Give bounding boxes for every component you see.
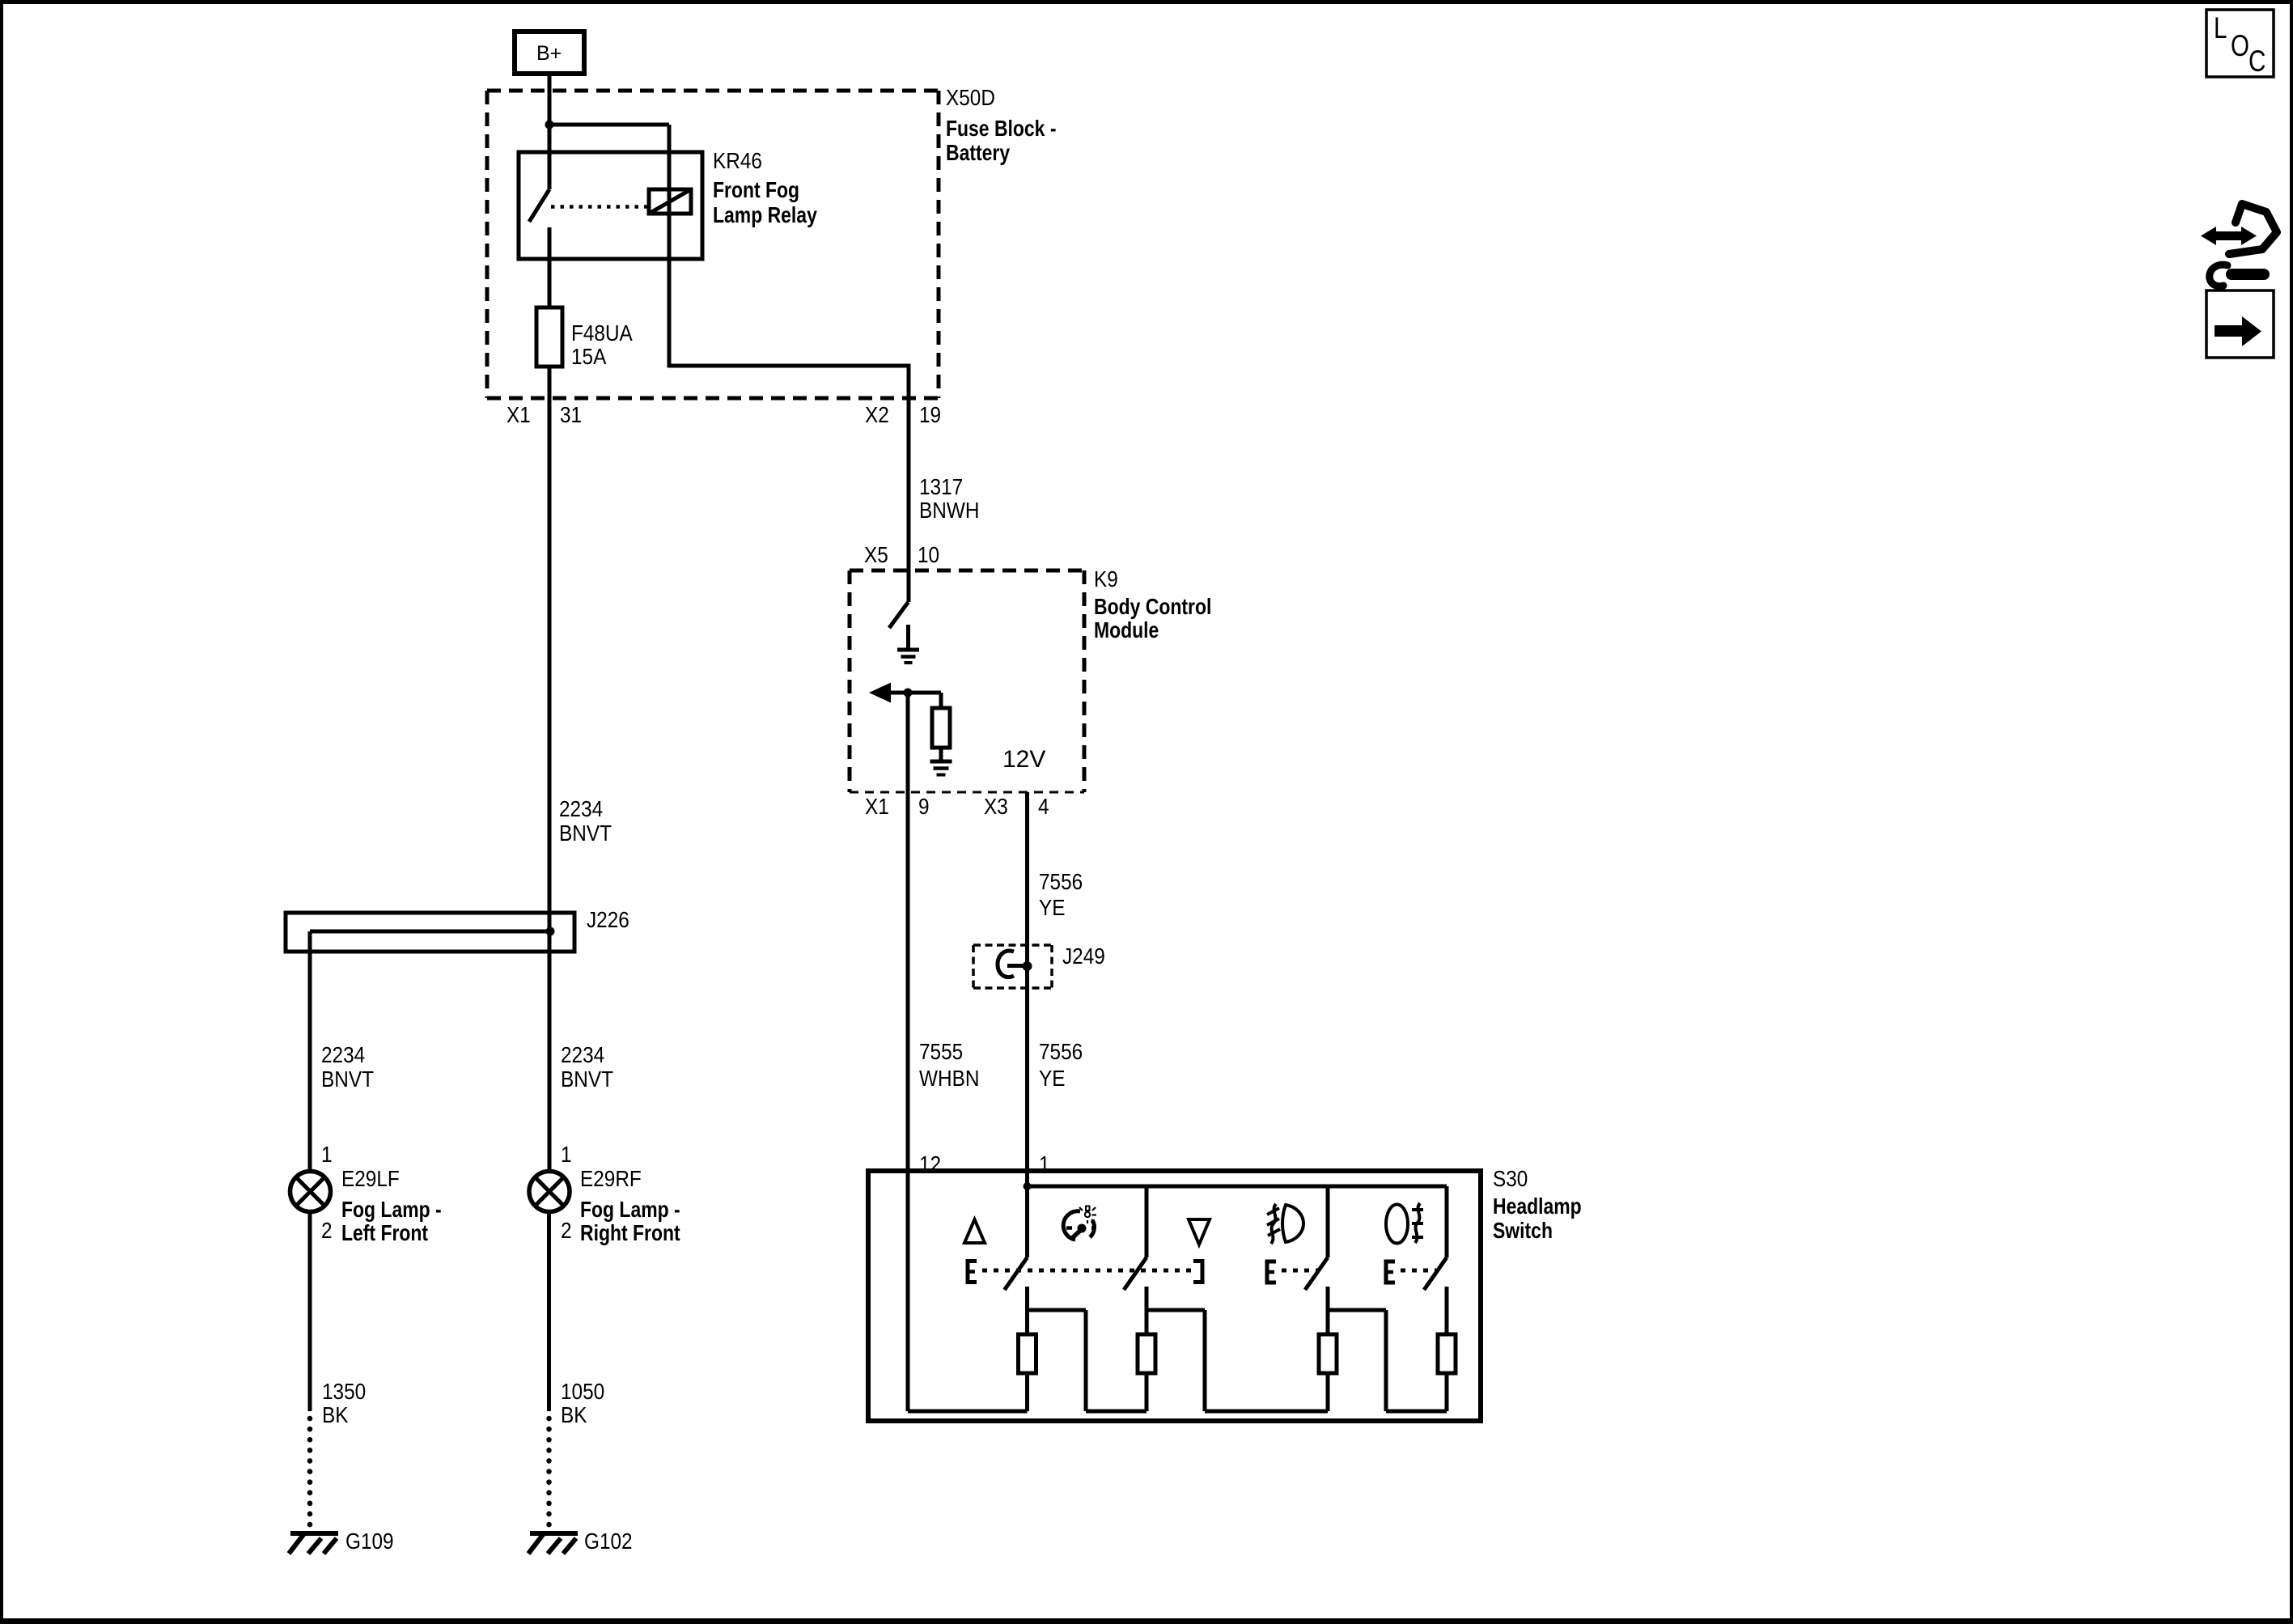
svg-text:9: 9 [918,793,930,819]
svg-text:Fog Lamp -: Fog Lamp - [341,1198,442,1223]
svg-text:7555: 7555 [919,1038,963,1064]
svg-text:X5: X5 [864,541,888,567]
svg-text:K9: K9 [1094,566,1118,592]
svg-text:BNVT: BNVT [561,1066,613,1092]
svg-text:X2: X2 [865,401,889,427]
svg-text:1050: 1050 [561,1378,604,1404]
svg-text:Battery: Battery [946,141,1011,166]
svg-text:YE: YE [1039,894,1065,920]
svg-text:J226: J226 [587,906,629,932]
svg-text:BNWH: BNWH [919,497,979,523]
svg-text:X1: X1 [506,401,531,427]
svg-text:31: 31 [560,401,582,427]
svg-text:12V: 12V [1002,746,1045,773]
svg-text:WHBN: WHBN [919,1065,979,1091]
svg-text:Fog Lamp -: Fog Lamp - [580,1198,680,1223]
svg-text:1: 1 [321,1141,333,1167]
svg-text:2: 2 [561,1217,572,1243]
svg-text:S30: S30 [1493,1165,1528,1191]
svg-text:X50D: X50D [946,84,995,110]
svg-text:BK: BK [561,1401,587,1427]
svg-text:Module: Module [1094,618,1159,643]
svg-text:1350: 1350 [322,1378,366,1404]
svg-text:4: 4 [1038,793,1049,819]
svg-text:Left Front: Left Front [341,1221,429,1246]
svg-text:2: 2 [321,1217,333,1243]
svg-text:Body Control: Body Control [1094,595,1211,620]
svg-text:10: 10 [918,541,939,567]
svg-text:Front Fog: Front Fog [713,178,799,203]
svg-text:G109: G109 [345,1528,394,1554]
svg-text:2234: 2234 [559,795,603,821]
svg-text:BNVT: BNVT [559,820,612,846]
svg-text:X3: X3 [984,793,1008,819]
svg-text:J249: J249 [1062,943,1105,969]
svg-text:2234: 2234 [321,1041,365,1067]
svg-text:1: 1 [561,1141,572,1167]
svg-text:X1: X1 [865,793,889,819]
svg-text:O: O [2231,30,2249,63]
svg-text:2234: 2234 [561,1041,604,1067]
svg-text:B+: B+ [536,42,562,65]
svg-text:BK: BK [322,1401,349,1427]
svg-text:Fuse Block -: Fuse Block - [946,117,1056,142]
svg-text:L: L [2214,12,2227,45]
svg-text:E29RF: E29RF [580,1165,642,1191]
svg-text:E29LF: E29LF [341,1165,400,1191]
svg-text:Lamp Relay: Lamp Relay [713,203,818,228]
svg-text:G102: G102 [584,1528,633,1554]
svg-text:7556: 7556 [1039,868,1083,894]
svg-text:F48UA: F48UA [571,320,633,346]
svg-text:C: C [2248,45,2265,78]
svg-text:Headlamp: Headlamp [1493,1194,1582,1219]
svg-text:YE: YE [1039,1065,1065,1091]
svg-text:19: 19 [919,401,941,427]
svg-text:1317: 1317 [919,473,963,499]
svg-text:Switch: Switch [1493,1219,1553,1244]
svg-text:15A: 15A [571,343,607,369]
svg-text:BNVT: BNVT [321,1066,374,1092]
svg-text:7556: 7556 [1039,1038,1083,1064]
svg-text:KR46: KR46 [713,147,762,173]
svg-text:Right Front: Right Front [580,1221,680,1246]
